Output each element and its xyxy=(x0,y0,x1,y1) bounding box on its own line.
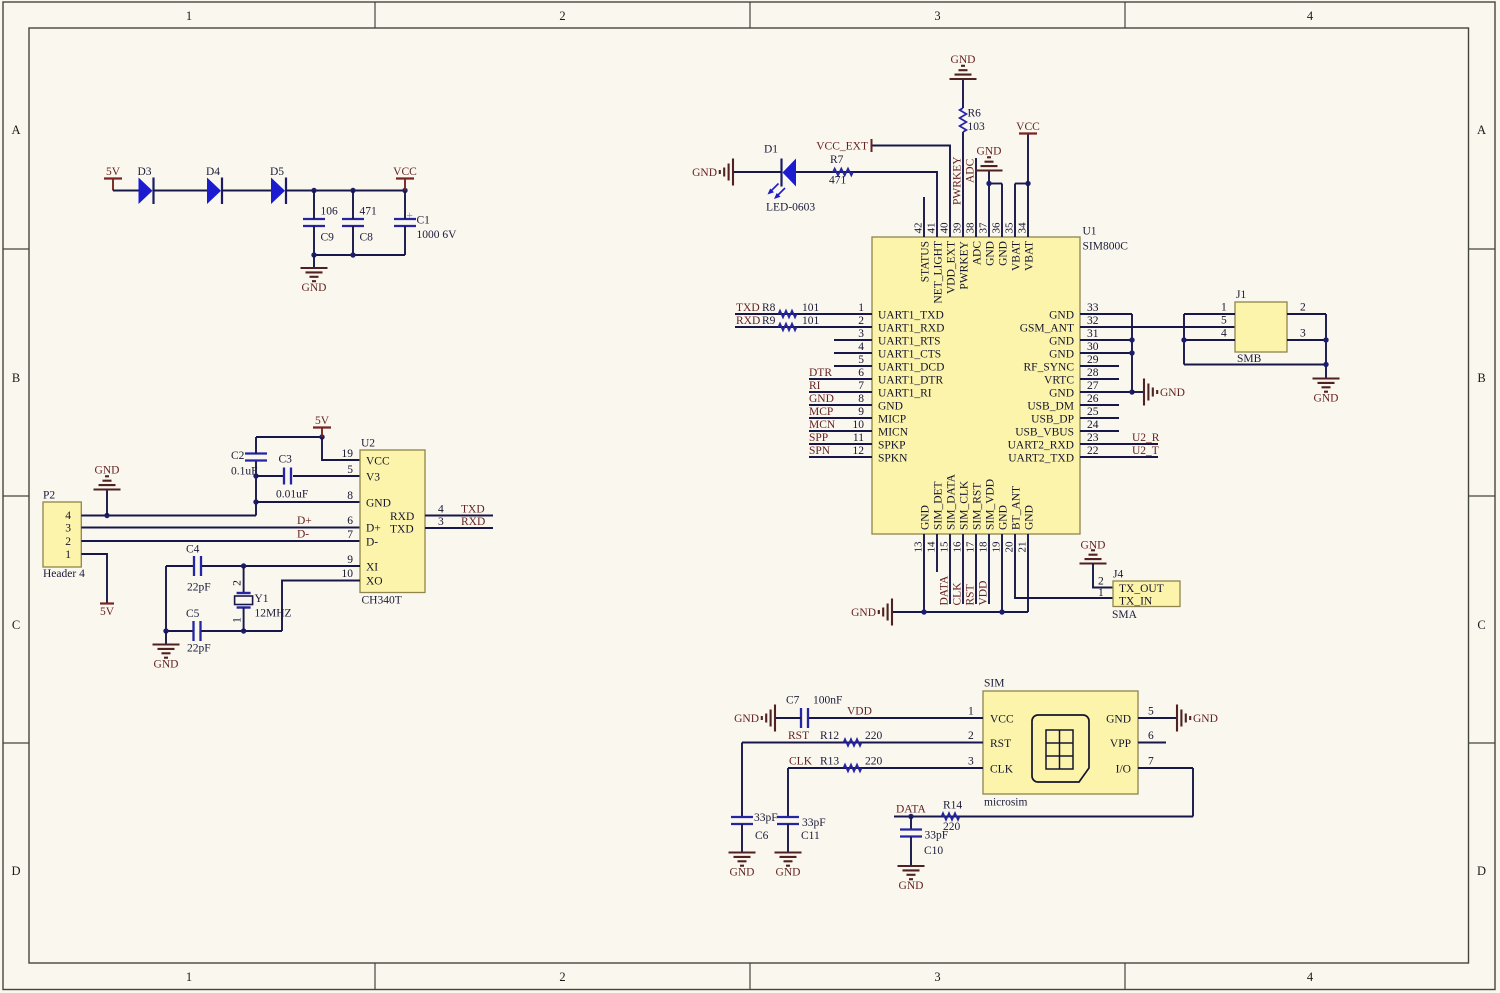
wire 5V to U2 VCC pin19 xyxy=(322,437,360,460)
svg-text:C6: C6 xyxy=(755,830,769,842)
svg-text:33pF: 33pF xyxy=(802,817,826,829)
resistor R6 body xyxy=(960,108,967,132)
wire J1 pin4 xyxy=(1184,339,1235,341)
junction ground rail xyxy=(163,628,168,633)
svg-text:TXD: TXD xyxy=(736,302,760,314)
wire into C8 xyxy=(352,191,354,220)
svg-text:10: 10 xyxy=(853,419,865,431)
svg-text:VCC: VCC xyxy=(366,456,390,468)
svg-text:2: 2 xyxy=(968,730,974,742)
junction C9 top xyxy=(311,188,316,193)
wire UART1_DCD pin5 stub xyxy=(834,365,872,367)
svg-text:VCC: VCC xyxy=(990,714,1014,726)
svg-text:VBAT: VBAT xyxy=(1011,241,1023,271)
svg-text:3: 3 xyxy=(438,516,444,528)
wire C10 top xyxy=(910,817,912,830)
svg-text:A: A xyxy=(1477,123,1486,137)
svg-text:UART2_RXD: UART2_RXD xyxy=(1008,440,1074,452)
svg-text:7: 7 xyxy=(1148,756,1154,768)
svg-text:C4: C4 xyxy=(186,544,200,556)
svg-text:4: 4 xyxy=(858,341,864,353)
svg-text:5: 5 xyxy=(347,464,353,476)
svg-text:1: 1 xyxy=(1221,302,1227,314)
svg-text:B: B xyxy=(12,371,20,385)
wire GND pin13 xyxy=(923,534,925,612)
svg-text:4: 4 xyxy=(65,510,71,522)
svg-text:2: 2 xyxy=(559,9,565,23)
svg-text:8: 8 xyxy=(858,393,864,405)
wire P2.2 D- to U2 xyxy=(81,540,360,542)
svg-text:1: 1 xyxy=(858,302,864,314)
SIM card icon xyxy=(1032,715,1089,782)
svg-text:A: A xyxy=(11,123,20,137)
wire J1 pin1 xyxy=(1184,313,1235,315)
svg-text:SPKN: SPKN xyxy=(878,453,908,465)
wire GND to LED cathode xyxy=(733,171,782,173)
svg-text:GND: GND xyxy=(1160,387,1185,399)
wire GND stem xyxy=(988,171,990,184)
wire ground rail xyxy=(314,254,405,256)
port VCC_EXT xyxy=(816,139,871,153)
frame column labels xyxy=(186,9,1314,984)
svg-text:12MHZ: 12MHZ xyxy=(255,608,292,620)
svg-text:GND: GND xyxy=(899,880,924,892)
svg-text:GND: GND xyxy=(366,498,391,510)
power port 5V under P2 xyxy=(100,604,115,619)
wire VBAT pin35 xyxy=(1014,184,1016,238)
resistor R12 body xyxy=(844,739,862,746)
U2 right pin numbers xyxy=(438,504,444,529)
wire GND pin37 xyxy=(988,184,990,238)
power port VCC above U1 xyxy=(1016,121,1040,134)
svg-text:PWRKEY: PWRKEY xyxy=(952,156,964,205)
ground GND under J1 xyxy=(1313,379,1340,405)
svg-text:SIM_CLK: SIM_CLK xyxy=(959,480,971,530)
power port VCC xyxy=(393,166,417,179)
svg-text:33pF: 33pF xyxy=(925,830,949,842)
svg-text:42: 42 xyxy=(913,223,925,234)
wire J1 pin2 xyxy=(1287,313,1326,315)
svg-text:GND: GND xyxy=(302,282,327,294)
svg-text:29: 29 xyxy=(1087,354,1099,366)
svg-text:4: 4 xyxy=(438,504,444,516)
svg-text:C5: C5 xyxy=(186,608,200,620)
svg-text:GND: GND xyxy=(809,393,834,405)
svg-text:36: 36 xyxy=(991,222,1003,234)
svg-text:B: B xyxy=(1477,371,1485,385)
junction VCC xyxy=(402,188,407,193)
svg-text:VBAT: VBAT xyxy=(1024,241,1036,271)
svg-text:UART1_RXD: UART1_RXD xyxy=(878,323,944,335)
wire UART1_RTS pin3 stub xyxy=(834,339,872,341)
svg-text:BT_ANT: BT_ANT xyxy=(1011,486,1023,530)
svg-text:38: 38 xyxy=(965,222,977,234)
ground GND right of U1 xyxy=(1144,379,1185,406)
junction pin31 xyxy=(1129,337,1134,342)
wire SIM_DATA pin15 xyxy=(949,534,951,604)
wire 5V stem U2 xyxy=(321,428,323,438)
wire U1 pin11 xyxy=(809,443,872,445)
svg-text:J1: J1 xyxy=(1236,289,1246,301)
svg-text:17: 17 xyxy=(965,541,977,553)
U1 top pin names xyxy=(920,240,1036,303)
U1 right pin numbers xyxy=(1087,302,1099,457)
capacitor C6 plates xyxy=(731,816,753,818)
svg-text:RF_SYNC: RF_SYNC xyxy=(1024,362,1075,374)
wire SIM GND pin5 xyxy=(1138,717,1177,719)
svg-text:3: 3 xyxy=(934,970,940,984)
ground GND under C10 xyxy=(898,866,925,892)
svg-text:37: 37 xyxy=(978,222,990,234)
svg-text:CH340T: CH340T xyxy=(362,595,402,607)
LED D1 xyxy=(768,159,797,200)
wire USB_DP pin25 stub xyxy=(1080,417,1119,419)
svg-text:GND: GND xyxy=(951,54,976,66)
wire C5 to XO corner xyxy=(202,630,283,632)
connector SIM microsim xyxy=(983,691,1138,794)
svg-text:3: 3 xyxy=(65,523,71,535)
svg-text:UART1_CTS: UART1_CTS xyxy=(878,349,941,361)
svg-text:SIM_DATA: SIM_DATA xyxy=(946,473,958,530)
svg-text:18: 18 xyxy=(978,541,990,553)
wire NET_LIGHT pin41 to R7 xyxy=(796,172,937,237)
U1 top pin numbers xyxy=(913,222,1029,234)
svg-text:30: 30 xyxy=(1087,341,1099,353)
svg-text:GND: GND xyxy=(1193,713,1218,725)
wire USB_DM pin26 stub xyxy=(1080,404,1119,406)
capacitor C4 plates xyxy=(193,556,195,576)
svg-text:21: 21 xyxy=(1017,542,1029,553)
svg-text:D-: D- xyxy=(297,529,309,541)
svg-text:7: 7 xyxy=(347,529,353,541)
svg-text:VDD: VDD xyxy=(978,581,990,606)
svg-text:I/O: I/O xyxy=(1116,764,1131,776)
svg-text:2: 2 xyxy=(858,315,864,327)
svg-text:P2: P2 xyxy=(43,490,55,502)
svg-text:106: 106 xyxy=(321,206,339,218)
wire SIM VPP pin6 stub xyxy=(1138,742,1166,744)
svg-text:GND: GND xyxy=(851,607,876,619)
svg-text:100nF: 100nF xyxy=(813,695,842,707)
IC U1 SIM800C xyxy=(872,237,1080,534)
wire RF_SYNC pin29 stub xyxy=(1080,365,1119,367)
svg-text:5: 5 xyxy=(858,354,864,366)
svg-text:DTR: DTR xyxy=(809,367,832,379)
svg-text:Y1: Y1 xyxy=(255,593,269,605)
wire SIM VCC pin1 xyxy=(809,717,983,719)
wire to ground symbol xyxy=(1132,391,1144,393)
wire pin35 to pin34 xyxy=(1015,183,1028,185)
wire U2 RXD pin4 xyxy=(425,515,493,517)
svg-text:GND: GND xyxy=(1049,349,1074,361)
wire ground stem xyxy=(165,631,167,645)
svg-text:471: 471 xyxy=(360,206,378,218)
wire STATUS pin42 stub xyxy=(923,197,925,237)
wire UART2_RXD pin23 xyxy=(1080,443,1158,445)
svg-text:USB_DP: USB_DP xyxy=(1031,414,1074,426)
wire P2.1 to 5V xyxy=(81,554,107,604)
capacitor C5 plates xyxy=(192,621,194,641)
label P2 pins xyxy=(65,510,71,561)
wire U1 pin7 xyxy=(809,391,872,393)
svg-text:15: 15 xyxy=(939,541,951,553)
wire GND pin31 xyxy=(1080,339,1132,341)
wire U2 XO pin10 down xyxy=(282,581,360,632)
svg-text:R9: R9 xyxy=(762,315,776,327)
diode D5 xyxy=(270,166,286,204)
svg-text:RST: RST xyxy=(990,738,1011,750)
svg-text:Header 4: Header 4 xyxy=(43,568,85,580)
wire pin37 to pin36 xyxy=(989,183,1002,185)
svg-text:19: 19 xyxy=(991,541,1003,553)
wire GND pin19 xyxy=(1001,534,1003,612)
wire J1 right ground xyxy=(1325,314,1327,379)
wire D4 to D5 xyxy=(222,190,271,192)
svg-text:UART1_RTS: UART1_RTS xyxy=(878,336,941,348)
wire SIM CLK pin3 xyxy=(788,767,983,769)
wire U2 TXD pin3 xyxy=(425,527,493,529)
wire SIM_DET pin14 stub xyxy=(936,534,938,572)
svg-text:GSM_ANT: GSM_ANT xyxy=(1020,323,1074,335)
U1 bottom pin numbers xyxy=(913,541,1029,553)
diode D3 xyxy=(137,166,153,204)
wire GND bus right xyxy=(1131,314,1133,392)
svg-text:5V: 5V xyxy=(100,606,115,618)
wire XI left to C4 xyxy=(166,565,194,567)
wire U1 pin6 xyxy=(809,378,872,380)
resistor R14 body xyxy=(942,813,960,820)
svg-text:R14: R14 xyxy=(943,800,962,812)
svg-text:D4: D4 xyxy=(206,166,220,178)
wire into C1 xyxy=(404,191,406,220)
svg-text:D5: D5 xyxy=(270,166,284,178)
svg-text:VCC_EXT: VCC_EXT xyxy=(816,141,868,153)
wire SIM_VDD pin18 xyxy=(988,534,990,604)
svg-text:16: 16 xyxy=(952,541,964,553)
wire RST down xyxy=(741,743,743,818)
svg-text:R6: R6 xyxy=(968,108,982,120)
svg-text:2: 2 xyxy=(232,580,244,586)
svg-text:DATA: DATA xyxy=(939,575,951,605)
junction C9 bottom xyxy=(311,252,316,257)
capacitor C11 plates xyxy=(777,816,799,818)
wire USB_VBUS pin24 stub xyxy=(1080,430,1119,432)
wire GND pin30 xyxy=(1080,352,1132,354)
svg-text:STATUS: STATUS xyxy=(920,241,932,282)
svg-text:5: 5 xyxy=(1148,706,1154,718)
svg-text:5: 5 xyxy=(1221,315,1227,327)
svg-text:C: C xyxy=(12,618,20,632)
junction pin30 xyxy=(1129,350,1134,355)
svg-text:28: 28 xyxy=(1087,367,1099,379)
wire J1 left ground xyxy=(1183,314,1185,365)
svg-text:8: 8 xyxy=(347,490,353,502)
capacitor C9 plates xyxy=(303,218,325,220)
U1 left pin numbers xyxy=(853,302,865,457)
svg-text:40: 40 xyxy=(939,222,951,234)
svg-text:19: 19 xyxy=(342,448,354,460)
resistor R8 body xyxy=(779,311,797,318)
svg-text:C1: C1 xyxy=(417,215,431,227)
svg-text:D1: D1 xyxy=(764,144,778,156)
svg-text:GND: GND xyxy=(776,867,801,879)
svg-text:32: 32 xyxy=(1087,315,1099,327)
wire U1 pin12 xyxy=(809,456,872,458)
wire VRTC pin28 stub xyxy=(1080,378,1119,380)
junction 5V U2 xyxy=(319,434,324,439)
svg-text:103: 103 xyxy=(968,121,986,133)
ground GND under C11 xyxy=(775,853,802,879)
wire SIM IO pin7 xyxy=(1138,767,1193,769)
wire P2.4 GND net xyxy=(81,515,256,517)
svg-text:34: 34 xyxy=(1017,222,1029,234)
wire V3 to C3 xyxy=(256,475,283,477)
svg-text:GND: GND xyxy=(95,465,120,477)
wire C4 C5 left vertical xyxy=(165,566,167,631)
svg-text:GND: GND xyxy=(985,241,997,266)
svg-text:TXD: TXD xyxy=(461,504,485,516)
svg-text:6: 6 xyxy=(858,367,864,379)
svg-text:GND: GND xyxy=(977,146,1002,158)
wire J1 ground rail xyxy=(1184,364,1326,366)
U1 bottom pin names xyxy=(920,473,1036,530)
svg-text:11: 11 xyxy=(853,432,864,444)
svg-text:0.01uF: 0.01uF xyxy=(276,489,308,501)
svg-text:4: 4 xyxy=(1221,328,1227,340)
wire ADC pin38 stub xyxy=(975,158,977,237)
wire rail to ground xyxy=(313,255,315,268)
svg-text:D: D xyxy=(11,864,20,878)
svg-text:10: 10 xyxy=(342,568,354,580)
wire SIM_RST pin17 xyxy=(975,534,977,604)
svg-text:1: 1 xyxy=(65,549,71,561)
svg-text:SPKP: SPKP xyxy=(878,440,906,452)
junction C10 xyxy=(908,814,913,819)
junction Y1 top xyxy=(241,563,246,568)
svg-text:1000 6V: 1000 6V xyxy=(417,229,458,241)
svg-text:31: 31 xyxy=(1087,328,1099,340)
svg-text:U2: U2 xyxy=(361,438,375,450)
wire GND pin21 xyxy=(1027,534,1029,612)
wire PWRKEY pin39 xyxy=(962,132,964,237)
wire rail to C5 xyxy=(166,630,194,632)
svg-text:4: 4 xyxy=(1307,970,1314,984)
wire U1 pin8 xyxy=(809,404,872,406)
svg-text:J4: J4 xyxy=(1113,569,1123,581)
svg-text:GND: GND xyxy=(1314,393,1339,405)
svg-text:3: 3 xyxy=(858,328,864,340)
wire DATA net xyxy=(894,816,1193,818)
svg-text:U2_T: U2_T xyxy=(1132,445,1159,457)
junction C8 top xyxy=(350,188,355,193)
svg-text:6: 6 xyxy=(347,515,353,527)
capacitor C2 plates xyxy=(245,452,267,454)
connector P2 Header4 xyxy=(43,502,81,567)
svg-text:GND: GND xyxy=(1049,388,1074,400)
svg-text:PWRKEY: PWRKEY xyxy=(959,240,971,289)
ground GND at SIM pin5 xyxy=(1177,705,1218,732)
svg-text:9: 9 xyxy=(858,406,864,418)
capacitor C1 plates xyxy=(394,218,416,220)
diode D4 xyxy=(206,166,222,204)
svg-text:GND: GND xyxy=(734,713,759,725)
svg-text:RXD: RXD xyxy=(461,516,485,528)
junction GND at P2 xyxy=(104,513,109,518)
svg-text:R13: R13 xyxy=(820,756,839,768)
svg-text:XI: XI xyxy=(366,562,378,574)
power port 5V above U2 xyxy=(313,415,331,428)
svg-text:0.1uF: 0.1uF xyxy=(231,466,258,478)
U1 right pin names xyxy=(1008,310,1075,465)
wire IO down xyxy=(1192,768,1194,817)
IC U2 CH340T xyxy=(360,450,425,593)
svg-text:SIM_RST: SIM_RST xyxy=(972,483,984,530)
capacitor C10 plates xyxy=(900,828,922,830)
wire into C9 xyxy=(313,191,315,220)
wire C1 to ground rail xyxy=(404,226,406,255)
svg-text:microsim: microsim xyxy=(984,797,1027,809)
wire GND pin33 xyxy=(1080,313,1132,315)
svg-text:R8: R8 xyxy=(762,302,776,314)
svg-text:35: 35 xyxy=(1004,222,1016,234)
wire SIM_CLK pin16 xyxy=(962,534,964,604)
wire GSM_ANT pin32 to J1 xyxy=(1080,326,1235,328)
capacitor C3 plates xyxy=(283,468,285,485)
svg-text:MCP: MCP xyxy=(809,406,833,418)
ground GND above J4 xyxy=(1080,540,1107,564)
wire VBAT pin34 to VCC xyxy=(1027,134,1029,238)
junction pin19 xyxy=(999,609,1004,614)
svg-text:LED-0603: LED-0603 xyxy=(766,202,815,214)
wire J1 pin3 xyxy=(1287,339,1326,341)
svg-text:NET_LIGHT: NET_LIGHT xyxy=(933,241,945,304)
wire GND to U2 pin8 xyxy=(256,501,360,503)
svg-text:101: 101 xyxy=(802,315,820,327)
svg-text:GND: GND xyxy=(1049,336,1074,348)
junction J1 pin3 xyxy=(1323,337,1328,342)
svg-text:UART1_TXD: UART1_TXD xyxy=(878,310,944,322)
junction V3 C2 xyxy=(253,473,258,478)
wire C3 to U2 V3 pin5 xyxy=(293,475,360,477)
wire 5V to D3 anode xyxy=(113,190,139,192)
svg-text:6: 6 xyxy=(1148,730,1154,742)
wire C4 to U2 XI pin9 xyxy=(202,565,360,567)
svg-text:U1: U1 xyxy=(1083,226,1097,238)
capacitor C8 plates xyxy=(342,218,364,220)
junction C8 bottom xyxy=(350,252,355,257)
svg-text:C10: C10 xyxy=(924,845,943,857)
svg-text:39: 39 xyxy=(952,222,964,234)
svg-text:2: 2 xyxy=(1300,302,1306,314)
svg-text:GND: GND xyxy=(1049,310,1074,322)
svg-text:CLK: CLK xyxy=(952,582,964,606)
svg-text:C: C xyxy=(1477,618,1485,632)
svg-text:23: 23 xyxy=(1087,432,1099,444)
wire C2 top xyxy=(255,437,257,454)
svg-text:SIM_VDD: SIM_VDD xyxy=(985,479,997,530)
svg-text:SIM: SIM xyxy=(984,678,1004,690)
ground GND under C5 xyxy=(153,645,180,671)
svg-text:TX_IN: TX_IN xyxy=(1119,596,1153,608)
svg-text:RI: RI xyxy=(809,380,821,392)
svg-text:C8: C8 xyxy=(360,232,374,244)
svg-text:GND: GND xyxy=(1106,714,1131,726)
ground GND under C9 xyxy=(301,268,328,294)
svg-text:MCN: MCN xyxy=(809,419,836,431)
wire D5 to VCC node xyxy=(286,190,405,192)
svg-text:4: 4 xyxy=(1307,9,1314,23)
svg-text:471: 471 xyxy=(829,175,847,187)
